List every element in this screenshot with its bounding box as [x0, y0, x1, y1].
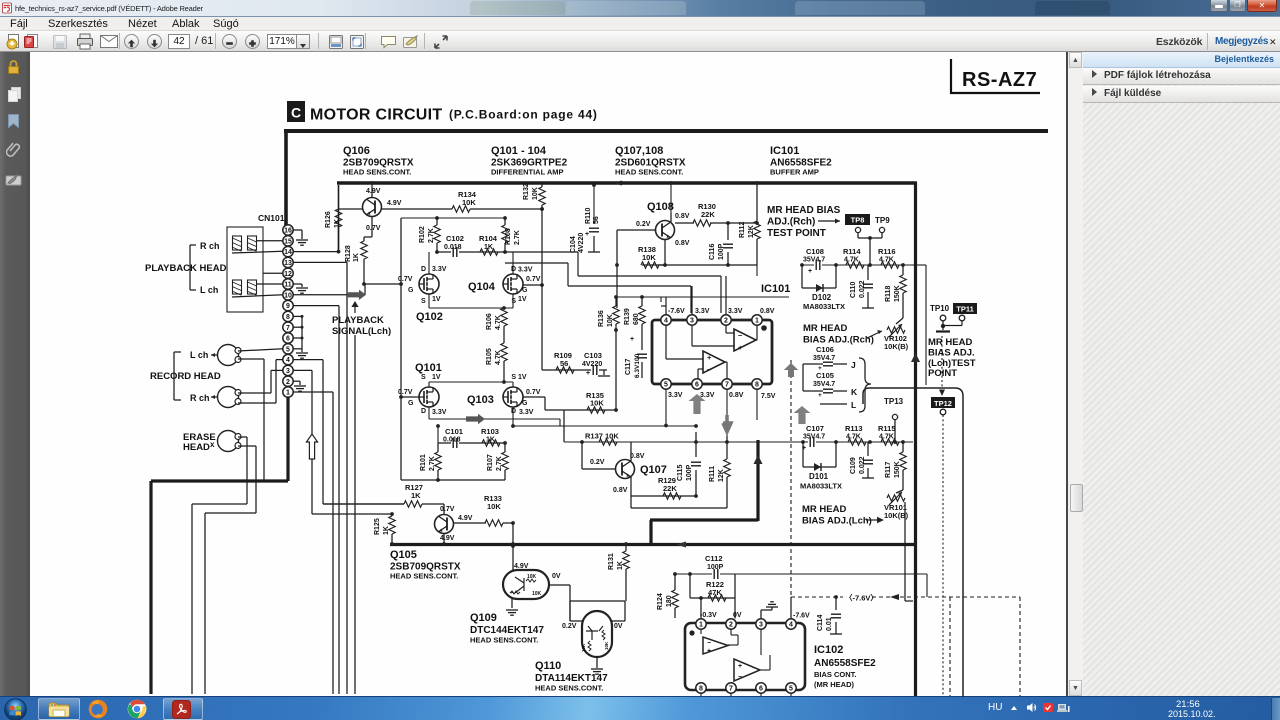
svg-text:R137 10K: R137 10K [585, 432, 619, 441]
svg-text:Q102: Q102 [416, 311, 443, 323]
svg-text:1V: 1V [518, 296, 527, 303]
svg-text:C103: C103 [584, 351, 602, 360]
svg-text:RECORD HEAD: RECORD HEAD [150, 371, 221, 382]
svg-text:1V: 1V [518, 374, 527, 381]
svg-text:TEST POINT: TEST POINT [767, 228, 826, 239]
svg-text:R105: R105 [486, 348, 493, 365]
svg-text:7.5V: 7.5V [761, 393, 776, 400]
svg-text:R ch: R ch [190, 393, 210, 403]
svg-text:D102: D102 [812, 293, 832, 302]
svg-text:7: 7 [725, 382, 729, 389]
svg-text:C117: C117 [625, 359, 632, 375]
svg-text:R115: R115 [878, 424, 896, 433]
svg-text:C102: C102 [446, 234, 464, 243]
svg-text:1V: 1V [432, 374, 441, 381]
svg-text:DIFFERENTIAL AMP: DIFFERENTIAL AMP [491, 168, 564, 177]
svg-text:5: 5 [286, 346, 290, 353]
svg-text:R107: R107 [487, 454, 494, 471]
svg-text:HEAD SENS.CONT.: HEAD SENS.CONT. [535, 684, 603, 693]
svg-text:TP12: TP12 [934, 399, 952, 408]
svg-text:POINT: POINT [928, 368, 957, 379]
svg-text:2.7K: 2.7K [429, 456, 436, 471]
svg-text:3.3V: 3.3V [432, 266, 447, 273]
svg-text:14: 14 [284, 249, 292, 256]
svg-text:12K: 12K [718, 469, 725, 482]
svg-text:-0.3V: -0.3V [700, 612, 717, 619]
svg-text:4.9V: 4.9V [514, 563, 529, 570]
svg-text:0.022: 0.022 [859, 456, 866, 474]
svg-text:4.7K: 4.7K [846, 434, 861, 441]
svg-text:IC101: IC101 [770, 145, 799, 157]
svg-text:0.2V: 0.2V [562, 623, 577, 630]
svg-text:TP13: TP13 [884, 397, 904, 406]
svg-text:0.018: 0.018 [443, 437, 461, 444]
svg-text:G: G [522, 287, 528, 294]
svg-text:BIAS ADJ.(Lch): BIAS ADJ.(Lch) [802, 516, 872, 527]
svg-text:150K: 150K [894, 285, 901, 302]
svg-text:C114: C114 [817, 615, 824, 631]
svg-text:4.7K: 4.7K [879, 257, 894, 264]
svg-text:ADJ.(Rch): ADJ.(Rch) [767, 217, 815, 228]
svg-text:0.8V: 0.8V [613, 487, 628, 494]
svg-text:2: 2 [729, 622, 733, 629]
svg-text:R104: R104 [479, 234, 498, 243]
svg-text:0V: 0V [552, 573, 561, 580]
svg-text:R103: R103 [481, 427, 499, 436]
svg-text:0.7V: 0.7V [526, 389, 541, 396]
svg-text:150K: 150K [894, 461, 901, 478]
svg-text:S: S [511, 374, 516, 381]
svg-text:x: x [210, 440, 215, 449]
svg-text:3.3V: 3.3V [668, 392, 683, 399]
svg-text:R112: R112 [739, 222, 746, 238]
svg-text:0.8V: 0.8V [729, 392, 744, 399]
svg-text:+: + [738, 343, 743, 352]
svg-text:0.2V: 0.2V [590, 459, 605, 466]
svg-text:0.7V: 0.7V [398, 276, 413, 283]
svg-text:3.3V: 3.3V [518, 267, 533, 274]
svg-text:0.01: 0.01 [826, 617, 833, 631]
svg-text:J: J [851, 360, 856, 370]
svg-text:BIAS ADJ.(Rch): BIAS ADJ.(Rch) [803, 335, 874, 346]
svg-text:1V: 1V [432, 296, 441, 303]
svg-text:C116: C116 [709, 244, 716, 260]
svg-text:R131: R131 [608, 553, 615, 570]
svg-text:2.7K: 2.7K [428, 228, 435, 243]
svg-text:−: − [707, 365, 712, 374]
svg-text:10K: 10K [581, 643, 586, 652]
svg-text:R126: R126 [325, 211, 332, 228]
svg-text:7: 7 [286, 325, 290, 332]
svg-text:S: S [421, 374, 426, 381]
svg-text:C107: C107 [806, 424, 824, 433]
svg-text:5: 5 [664, 382, 668, 389]
svg-text:3.3V: 3.3V [432, 409, 447, 416]
svg-text:Q109: Q109 [470, 612, 497, 624]
svg-text:12: 12 [284, 271, 292, 278]
svg-text:47K: 47K [708, 588, 722, 597]
svg-text:BIAS CONT.: BIAS CONT. [814, 670, 857, 679]
svg-text:-7.6V: -7.6V [668, 308, 685, 315]
svg-text:BUFFER AMP: BUFFER AMP [770, 168, 819, 177]
svg-text:D: D [511, 266, 516, 273]
svg-text:+: + [586, 370, 590, 377]
svg-text:SIGNAL(Lch): SIGNAL(Lch) [332, 326, 391, 337]
svg-text:4.9V: 4.9V [440, 535, 455, 542]
svg-text:1: 1 [286, 390, 290, 397]
svg-text:MA8033LTX: MA8033LTX [803, 302, 845, 311]
svg-text:10: 10 [284, 292, 292, 299]
svg-text:1K: 1K [484, 244, 493, 251]
svg-text:0.8V: 0.8V [675, 240, 690, 247]
svg-text:C108: C108 [806, 247, 824, 256]
svg-text:BIAS ADJ.: BIAS ADJ. [928, 348, 975, 359]
svg-text:S: S [511, 298, 516, 305]
svg-text:R117: R117 [885, 462, 892, 478]
svg-text:11: 11 [284, 282, 292, 289]
svg-text:+: + [738, 663, 742, 670]
svg-text:IC102: IC102 [814, 644, 843, 656]
svg-text:100P: 100P [686, 464, 693, 481]
svg-text:L ch: L ch [190, 350, 208, 360]
svg-text:8: 8 [286, 314, 290, 321]
svg-text:L: L [851, 400, 856, 410]
svg-text:Q107: Q107 [640, 464, 667, 476]
svg-text:PLAYBACK HEAD: PLAYBACK HEAD [145, 263, 227, 274]
svg-text:HEAD SENS.CONT.: HEAD SENS.CONT. [615, 168, 683, 177]
svg-text:6: 6 [759, 686, 763, 693]
svg-text:R136: R136 [598, 310, 605, 327]
svg-text:R102: R102 [419, 226, 426, 243]
svg-text:1K: 1K [383, 526, 390, 535]
svg-text:1: 1 [755, 318, 759, 325]
svg-text:C106: C106 [816, 345, 834, 354]
svg-text:0.7V: 0.7V [366, 225, 381, 232]
svg-text:+: + [818, 392, 822, 399]
svg-text:-7.6V: -7.6V [793, 613, 810, 620]
svg-text:10K: 10K [604, 641, 609, 650]
svg-text:D: D [421, 266, 426, 273]
svg-text:C104: C104 [570, 236, 577, 253]
svg-text:G: G [408, 400, 414, 407]
svg-text:Q103: Q103 [467, 394, 494, 406]
svg-text:2.7K: 2.7K [496, 456, 503, 471]
svg-text:K: K [851, 387, 858, 397]
svg-text:MR HEAD: MR HEAD [802, 504, 846, 515]
svg-text:−: − [707, 640, 711, 647]
svg-text:9: 9 [286, 303, 290, 310]
svg-text:C112: C112 [705, 554, 723, 563]
svg-text:0.8V: 0.8V [675, 213, 690, 220]
svg-text:R124: R124 [657, 593, 664, 610]
svg-text:+: + [707, 648, 711, 655]
svg-text:C101: C101 [445, 427, 463, 436]
svg-text:RS-AZ7: RS-AZ7 [962, 69, 1037, 91]
svg-text:1: 1 [699, 622, 703, 629]
svg-text:180: 180 [666, 595, 673, 607]
svg-text:1K: 1K [617, 561, 624, 570]
svg-text:4.9V: 4.9V [366, 188, 381, 195]
svg-text:3: 3 [286, 368, 290, 375]
svg-text:R118: R118 [885, 286, 892, 302]
svg-text:3.3V: 3.3V [728, 308, 743, 315]
svg-text:(MR HEAD): (MR HEAD) [814, 680, 854, 689]
svg-text:680: 680 [633, 313, 640, 325]
svg-text:1K: 1K [486, 437, 495, 444]
svg-text:3: 3 [759, 622, 763, 629]
svg-text:R101: R101 [420, 454, 427, 471]
svg-text:C109: C109 [850, 457, 857, 474]
svg-text:C105: C105 [816, 371, 834, 380]
svg-text:R110: R110 [585, 208, 592, 224]
svg-text:10K(B): 10K(B) [884, 342, 909, 351]
svg-text:MR HEAD: MR HEAD [803, 323, 847, 334]
svg-text:100P: 100P [718, 243, 725, 260]
svg-text:4V220: 4V220 [582, 361, 602, 368]
svg-text:10K: 10K [462, 198, 476, 207]
svg-text:R139: R139 [624, 308, 631, 325]
svg-text:3.3V: 3.3V [695, 308, 710, 315]
svg-text:R116: R116 [878, 247, 896, 256]
svg-text:0.022: 0.022 [859, 280, 866, 298]
svg-text:35V4.7: 35V4.7 [813, 355, 835, 362]
svg-text:TP11: TP11 [956, 305, 974, 314]
svg-text:R113: R113 [845, 424, 863, 433]
svg-text:2.7K: 2.7K [514, 230, 521, 245]
svg-text:G: G [408, 287, 414, 294]
svg-text:〈-7.6V〉: 〈-7.6V〉 [845, 593, 878, 603]
svg-text:4.7K: 4.7K [844, 257, 859, 264]
svg-text:+: + [808, 268, 812, 275]
svg-text:56: 56 [593, 216, 600, 224]
svg-text:4: 4 [789, 622, 793, 629]
svg-text:4.7K: 4.7K [495, 315, 502, 330]
svg-text:HEAD: HEAD [183, 442, 210, 453]
svg-text:4.9V: 4.9V [387, 200, 402, 207]
svg-text:6: 6 [286, 336, 290, 343]
svg-text:4: 4 [664, 318, 668, 325]
svg-text:G: G [522, 400, 528, 407]
svg-text:C110: C110 [850, 282, 857, 298]
svg-text:Q101 - 104: Q101 - 104 [491, 145, 547, 157]
svg-text:HEAD SENS.CONT.: HEAD SENS.CONT. [343, 168, 411, 177]
svg-text:+: + [585, 231, 589, 238]
svg-text:22K: 22K [701, 210, 715, 219]
svg-text:4V220: 4V220 [578, 233, 585, 253]
svg-text:15: 15 [284, 238, 292, 245]
svg-text:R125: R125 [374, 518, 381, 535]
svg-text:D: D [421, 408, 426, 415]
svg-text:0V: 0V [733, 612, 742, 619]
svg-text:0.7V: 0.7V [526, 276, 541, 283]
svg-text:35V4.7: 35V4.7 [813, 381, 835, 388]
svg-text:10K: 10K [642, 253, 656, 262]
svg-text:4: 4 [286, 357, 290, 364]
svg-text:TP10: TP10 [930, 304, 950, 313]
svg-text:MA8033LTX: MA8033LTX [800, 482, 842, 491]
svg-text:6: 6 [695, 382, 699, 389]
svg-text:CN101: CN101 [258, 213, 285, 223]
svg-text:4.7K: 4.7K [879, 434, 894, 441]
svg-text:IC101: IC101 [761, 283, 790, 295]
svg-text:10K: 10K [527, 574, 537, 580]
svg-text:10K: 10K [532, 591, 542, 597]
svg-text:12K: 12K [748, 225, 755, 238]
svg-text:35V4.7: 35V4.7 [803, 257, 825, 264]
svg-text:10K: 10K [487, 502, 501, 511]
svg-text:1K: 1K [353, 253, 360, 262]
svg-text:Q105: Q105 [390, 549, 417, 561]
svg-text:MR HEAD BIAS: MR HEAD BIAS [767, 205, 841, 216]
svg-text:5: 5 [789, 686, 793, 693]
svg-text:10K: 10K [607, 314, 614, 327]
svg-text:56: 56 [560, 359, 568, 368]
svg-text:DTA114EKT147: DTA114EKT147 [535, 673, 608, 684]
svg-text:1K: 1K [334, 219, 341, 228]
svg-text:S: S [421, 298, 426, 305]
svg-text:R132: R132 [523, 183, 530, 200]
svg-text:4.9V: 4.9V [458, 515, 473, 522]
svg-text:Q106: Q106 [343, 145, 370, 157]
svg-text:PLAYBACK: PLAYBACK [332, 315, 384, 326]
svg-text:2: 2 [286, 379, 290, 386]
svg-text:2: 2 [724, 318, 728, 325]
svg-text:Q104: Q104 [468, 281, 496, 293]
svg-text:8: 8 [755, 382, 759, 389]
svg-text:+: + [707, 353, 712, 362]
svg-text:+: + [630, 336, 634, 343]
svg-text:R ch: R ch [200, 241, 220, 251]
svg-text:(P.C.Board:on page 44): (P.C.Board:on page 44) [449, 108, 598, 122]
svg-text:10K: 10K [532, 187, 539, 200]
svg-text:16: 16 [284, 228, 292, 235]
svg-text:0.2V: 0.2V [636, 221, 651, 228]
svg-text:HEAD SENS.CONT.: HEAD SENS.CONT. [470, 636, 538, 645]
svg-text:Q108: Q108 [647, 201, 674, 213]
svg-text:C115: C115 [677, 465, 684, 481]
svg-text:13: 13 [284, 260, 292, 267]
svg-text:35V4.7: 35V4.7 [803, 434, 825, 441]
svg-text:8: 8 [699, 686, 703, 693]
svg-text:−: − [738, 674, 742, 681]
svg-text:0.7V: 0.7V [440, 506, 455, 513]
svg-text:R111: R111 [709, 466, 716, 482]
svg-text:D101: D101 [809, 472, 829, 481]
svg-text:C: C [291, 105, 301, 121]
svg-text:0.018: 0.018 [444, 244, 462, 251]
svg-text:3.3V: 3.3V [519, 409, 534, 416]
svg-text:6.3V100: 6.3V100 [634, 353, 641, 378]
svg-text:1K: 1K [411, 491, 421, 500]
svg-text:100P: 100P [707, 564, 724, 571]
svg-text:Q101: Q101 [415, 362, 442, 374]
svg-text:Q107,108: Q107,108 [615, 145, 663, 157]
svg-text:R106: R106 [486, 313, 493, 330]
svg-text:3: 3 [690, 318, 694, 325]
svg-text:4.7K: 4.7K [495, 350, 502, 365]
svg-text:AN6558SFE2: AN6558SFE2 [814, 658, 876, 669]
svg-text:DTC144EKT147: DTC144EKT147 [470, 625, 544, 636]
svg-text:R128: R128 [345, 245, 352, 262]
svg-text:HEAD SENS.CONT.: HEAD SENS.CONT. [390, 572, 458, 581]
svg-text:10K: 10K [590, 399, 604, 408]
svg-text:0.8V: 0.8V [630, 453, 645, 460]
svg-text:TP9: TP9 [875, 216, 890, 225]
svg-text:MOTOR CIRCUIT: MOTOR CIRCUIT [310, 107, 443, 124]
svg-text:0V: 0V [614, 623, 623, 630]
svg-text:R114: R114 [843, 247, 861, 256]
svg-text:−: − [738, 331, 743, 340]
svg-text:0.7V: 0.7V [398, 389, 413, 396]
svg-text:0.8V: 0.8V [760, 308, 775, 315]
svg-text:MR HEAD: MR HEAD [928, 337, 972, 348]
svg-text:Q110: Q110 [535, 660, 561, 672]
svg-text:3.3V: 3.3V [700, 392, 715, 399]
svg-text:L ch: L ch [200, 285, 218, 295]
svg-text:R108: R108 [505, 228, 512, 245]
svg-text:7: 7 [729, 686, 733, 693]
svg-text:22K: 22K [663, 484, 677, 493]
svg-text:TP8: TP8 [851, 216, 865, 225]
